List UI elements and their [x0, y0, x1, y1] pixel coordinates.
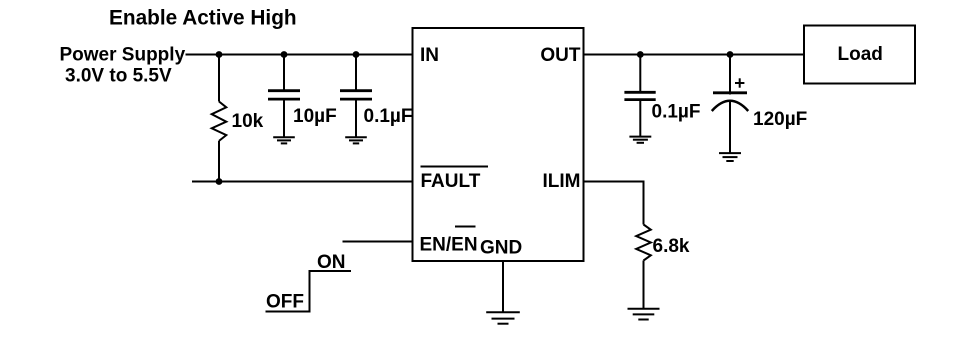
wire EN — [343, 241, 413, 243]
node junction dot VIN-R1 — [216, 51, 223, 58]
ground under input 0.1uF — [345, 137, 367, 143]
label 10uF — [293, 106, 337, 127]
pin label ILIM — [543, 171, 581, 192]
pin label EN/EN with overline — [420, 227, 478, 256]
svg-text:FAULT: FAULT — [421, 171, 481, 192]
capacitor 120uF polarized — [712, 55, 748, 154]
svg-text:6.8k: 6.8k — [653, 236, 690, 257]
wire FAULT rail — [192, 181, 413, 183]
title Enable Active High — [109, 7, 297, 30]
resistor 6.8k — [636, 225, 651, 309]
label 10k — [232, 111, 264, 132]
pin label FAULT with overline — [421, 167, 489, 193]
svg-text:10k: 10k — [232, 111, 264, 132]
label 0.1uF output — [652, 102, 701, 123]
capacitor 0.1uF input — [340, 55, 372, 138]
ground under output 0.1uF — [629, 137, 651, 143]
pin label OUT — [540, 45, 581, 66]
ground IC GND — [486, 312, 520, 323]
ground under 120uF — [719, 153, 741, 161]
svg-text:0.1µF: 0.1µF — [652, 102, 701, 123]
node junction dot R1-FAULT — [216, 178, 223, 185]
node junction dot VIN-C1 — [281, 51, 288, 58]
svg-text:Power Supply: Power Supply — [60, 45, 186, 66]
label 120uF — [753, 109, 807, 130]
label Power Supply 3.0V to 5.5V — [60, 45, 186, 87]
wire GND pin — [502, 261, 504, 312]
pin label IN — [420, 45, 439, 66]
op-amp U1 regulator box — [413, 28, 584, 261]
wire ILIM — [584, 182, 644, 225]
label 6.8k — [653, 236, 690, 257]
waveform enable step off-to-on — [266, 271, 352, 312]
svg-text:Enable Active High: Enable Active High — [109, 7, 297, 30]
svg-text:IN: IN — [420, 45, 439, 66]
label OFF — [266, 292, 304, 313]
svg-text:Load: Load — [838, 44, 883, 65]
node junction dot VOUT-C3 — [637, 51, 644, 58]
svg-text:EN/EN: EN/EN — [420, 235, 478, 256]
node junction dot VOUT-C4 — [727, 51, 734, 58]
capacitor 0.1uF output — [624, 55, 655, 137]
ground under 10uF — [273, 137, 295, 143]
capacitor 10uF — [268, 55, 300, 138]
wire output rail VOUT — [584, 54, 805, 56]
svg-text:120µF: 120µF — [753, 109, 807, 130]
svg-text:ILIM: ILIM — [543, 171, 581, 192]
svg-text:ON: ON — [317, 252, 346, 273]
pin label GND — [480, 238, 522, 259]
svg-text:GND: GND — [480, 238, 522, 259]
resistor 10k — [212, 55, 227, 182]
label ON — [317, 252, 346, 273]
label 0.1uF input — [364, 106, 413, 127]
ground under 6.8k — [628, 309, 660, 320]
node junction dot VIN-C2 — [353, 51, 360, 58]
wire input rail VIN — [186, 54, 413, 56]
svg-text:10µF: 10µF — [293, 106, 337, 127]
svg-text:0.1µF: 0.1µF — [364, 106, 413, 127]
svg-text:3.0V to 5.5V: 3.0V to 5.5V — [65, 66, 172, 87]
svg-text:OFF: OFF — [266, 292, 304, 313]
load box — [804, 26, 915, 84]
svg-text:OUT: OUT — [540, 45, 581, 66]
